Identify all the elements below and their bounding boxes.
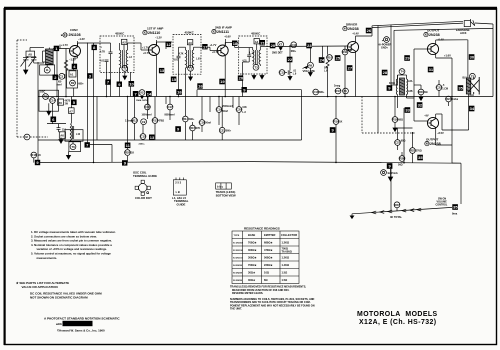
svg-text:A5: A5 <box>58 101 62 105</box>
bottom bus right <box>250 162 461 164</box>
callout square 8 top <box>92 45 97 50</box>
label 455KC T2 <box>185 31 195 35</box>
callout square 5b <box>71 100 77 106</box>
conv emitter block box <box>67 70 78 88</box>
osc wires <box>47 97 71 124</box>
svg-text:8Ω: 8Ω <box>264 278 268 282</box>
svg-text:X4 2N238: X4 2N238 <box>233 264 243 267</box>
svg-text:25: 25 <box>336 56 341 61</box>
circled R11 <box>342 46 353 70</box>
svg-text:COLOR DOT: COLOR DOT <box>135 196 152 200</box>
Q3 collector wire <box>225 43 249 48</box>
circled C17 <box>165 97 175 121</box>
svg-text:455KC: 455KC <box>115 32 125 36</box>
callout square 35a <box>458 85 464 91</box>
circled T4 ref <box>398 69 407 75</box>
label +9V Q3 <box>212 50 219 54</box>
coil resistance note <box>30 292 102 300</box>
svg-text:33: 33 <box>405 108 410 113</box>
svg-text:50mf: 50mf <box>205 122 211 125</box>
ground osc box <box>47 103 51 115</box>
svg-text:X6 2N238: X6 2N238 <box>233 280 243 282</box>
T3 secondary coil <box>259 47 267 67</box>
B plus terminal circle <box>378 37 392 50</box>
svg-text:–8.5V: –8.5V <box>437 131 444 135</box>
volume control line <box>352 207 452 213</box>
circled C22 <box>436 80 448 97</box>
IF transformer T1 dashed box <box>100 36 134 73</box>
circled C21 560 <box>219 97 231 141</box>
circled T3 ref <box>253 64 259 70</box>
svg-text:300Ω★: 300Ω★ <box>248 256 257 260</box>
svg-text:300Ω★: 300Ω★ <box>248 248 257 252</box>
svg-text:13: 13 <box>150 135 155 140</box>
svg-text:EMITTER: EMITTER <box>264 233 276 237</box>
svg-text:2 5 3: 2 5 3 <box>175 180 181 184</box>
capacitor C15 <box>57 124 67 132</box>
svg-text:30Ω★: 30Ω★ <box>248 278 256 282</box>
osc coil terminal guide <box>133 171 157 200</box>
svg-text:455KC: 455KC <box>185 31 195 35</box>
circled C19 <box>216 97 233 126</box>
svg-text:–9V: –9V <box>424 114 429 118</box>
label DRIVER 2N238 <box>343 23 359 43</box>
svg-text:X1 2N1108: X1 2N1108 <box>233 243 244 245</box>
ground osc <box>59 138 63 144</box>
callout square 9 agc <box>242 87 247 92</box>
circled C12 cap <box>279 68 297 76</box>
svg-text:BASE: BASE <box>248 233 255 237</box>
svg-text:1.5Ω: 1.5Ω <box>282 271 288 275</box>
label SW ON VOLUME CONTROL <box>436 198 448 207</box>
svg-text:L10: L10 <box>76 133 81 136</box>
main bus y96 <box>38 96 493 98</box>
AGC line <box>197 90 302 97</box>
circled R15 <box>190 122 201 140</box>
svg-text:470Ω★: 470Ω★ <box>264 248 273 252</box>
svg-text:700Ω★: 700Ω★ <box>248 241 257 245</box>
callout square 12 <box>166 42 172 48</box>
circled C3 <box>56 73 66 86</box>
svg-text:+1.7V: +1.7V <box>344 48 351 52</box>
svg-text:50mf: 50mf <box>222 110 228 113</box>
callout square 28 <box>382 70 388 76</box>
box A4 top <box>254 39 259 51</box>
callout square 9e <box>330 127 336 133</box>
svg-text:31: 31 <box>429 67 434 72</box>
diode X2 1N64 <box>136 90 148 103</box>
wire conv base bias <box>65 49 67 97</box>
svg-text:1.4KΩ: 1.4KΩ <box>282 263 290 267</box>
svg-text:4.7K: 4.7K <box>100 51 105 54</box>
IF transformer T2 dashed box <box>173 35 201 75</box>
circled R28 1K <box>125 150 135 156</box>
svg-text:L8A: L8A <box>408 80 413 83</box>
circled R25 <box>410 132 422 163</box>
circled C22b 2200 <box>139 125 147 145</box>
volume line left arrow <box>350 214 354 219</box>
osc coil box <box>65 130 83 142</box>
svg-text:19: 19 <box>220 79 225 84</box>
earphone jack <box>464 19 475 27</box>
Q4 emitter wire <box>344 48 356 97</box>
svg-text:2000mmf: 2000mmf <box>222 105 233 108</box>
svg-text:C22: C22 <box>437 86 443 90</box>
svg-text:560+: 560+ <box>226 129 232 132</box>
svg-text:20: 20 <box>271 43 276 48</box>
svg-text:A1: A1 <box>70 73 74 77</box>
svg-text:35: 35 <box>458 86 463 91</box>
svg-text:2ND DET: 2ND DET <box>272 52 283 55</box>
vertical wire x391 <box>390 25 392 85</box>
dashed AGC line <box>362 97 415 134</box>
vertical x391 to volume <box>390 163 392 211</box>
box A1 <box>69 71 76 77</box>
svg-text:220Ω★: 220Ω★ <box>264 263 273 267</box>
svg-text:X3 2N1111: X3 2N1111 <box>233 258 244 260</box>
svg-text:5mf★: 5mf★ <box>452 98 458 101</box>
T2 core <box>189 50 191 68</box>
svg-text:1.5Ω: 1.5Ω <box>282 278 288 282</box>
svg-text:measurements.: measurements. <box>37 256 58 260</box>
svg-text:C19: C19 <box>217 108 223 112</box>
svg-text:30: 30 <box>470 55 475 60</box>
callout square 27 <box>347 65 353 71</box>
trans bottom view guide <box>216 183 236 197</box>
osc box A5 <box>58 99 71 105</box>
callout square 9d <box>387 163 393 169</box>
svg-text:4.91: 4.91 <box>173 59 178 62</box>
svg-text:C10: C10 <box>291 43 297 47</box>
diode X7 detector <box>272 41 284 54</box>
label 2ND IF AMP 2N1111 <box>212 26 232 45</box>
wire verticals left band <box>48 43 97 145</box>
circled C9b 022 <box>141 119 147 125</box>
callout square 10 <box>129 81 135 87</box>
box A6 <box>59 132 66 139</box>
svg-text:A8: A8 <box>28 53 32 57</box>
svg-text:27: 27 <box>348 66 353 71</box>
circled R18 <box>392 97 403 129</box>
callout square 31 <box>428 67 434 73</box>
svg-text:X2 2N1110: X2 2N1110 <box>233 250 244 252</box>
circled C18 <box>199 97 211 133</box>
svg-text:R18: R18 <box>393 118 399 122</box>
svg-text:680+: 680+ <box>291 50 297 53</box>
conv collector wire <box>78 43 111 162</box>
callout square 18b <box>176 89 182 95</box>
Q4 collector to top wire <box>356 26 373 36</box>
svg-text:2N1108: 2N1108 <box>69 33 81 37</box>
svg-text:+1.6V: +1.6V <box>444 54 451 58</box>
svg-text:560Ω★: 560Ω★ <box>264 256 273 260</box>
callout square 33 <box>405 107 411 113</box>
svg-text:17: 17 <box>203 44 208 49</box>
svg-text:T4: T4 <box>401 70 405 74</box>
left block rect wires <box>38 62 302 163</box>
vertical x461 volume feed <box>452 163 461 204</box>
svg-text:680+: 680+ <box>78 82 84 85</box>
trimmer box A8 <box>26 48 44 57</box>
photofact line <box>44 317 120 333</box>
svg-text:68Ω: 68Ω <box>398 119 403 122</box>
variable capacitor C1 <box>21 56 45 70</box>
callout square 22 <box>287 57 293 63</box>
callout square 35c <box>452 204 458 210</box>
svg-text:+1.7V: +1.7V <box>142 46 149 50</box>
svg-text:1.CM: 1.CM <box>442 88 448 91</box>
antenna dashed loop <box>17 40 48 137</box>
callout square 25 <box>335 55 341 61</box>
svg-text:R28: R28 <box>125 151 131 155</box>
circled T5 ref <box>463 73 476 96</box>
antenna coil L1 <box>43 48 54 65</box>
callout square 15 <box>171 77 177 83</box>
wire T2 to Q3 <box>201 43 218 51</box>
callout square 34 <box>469 106 475 112</box>
wire sq7 right <box>90 145 112 163</box>
table text <box>233 233 297 282</box>
svg-text:VALUE OR APPLICATION: VALUE OR APPLICATION <box>22 285 58 289</box>
svg-text:–1.2V: –1.2V <box>155 36 162 40</box>
callout square 21 <box>260 40 266 45</box>
wire y30 long <box>394 28 493 85</box>
svg-text:L B: L B <box>176 190 180 194</box>
svg-text:L8B: L8B <box>408 90 413 93</box>
svg-text:GND+: GND+ <box>381 47 389 50</box>
svg-text:1.2KΩ: 1.2KΩ <box>282 241 290 245</box>
wire coil to conv base <box>53 45 69 49</box>
svg-text:35: 35 <box>418 155 423 160</box>
svg-text:C17: C17 <box>168 105 174 109</box>
svg-text:C13: C13 <box>313 90 319 94</box>
svg-text:34: 34 <box>470 106 475 111</box>
Q2 collector wire <box>157 42 173 49</box>
svg-text:X7: X7 <box>279 43 283 47</box>
svg-text:680+: 680+ <box>319 91 325 94</box>
Q3 emitter wire <box>224 55 226 97</box>
callout square 9c <box>387 85 393 91</box>
callout square 13b <box>159 68 165 73</box>
svg-text:16: 16 <box>198 84 203 89</box>
callout square 13 <box>149 135 155 141</box>
transistor Q4 DRIVER 2N238 <box>347 41 358 52</box>
wire x127 long <box>127 97 129 163</box>
label CONV 2N1108 <box>61 28 81 37</box>
svg-text:TYPE: TYPE <box>234 235 240 237</box>
svg-text:MOTOROLA MODELS: MOTOROLA MODELS <box>357 311 438 318</box>
svg-text:11: 11 <box>46 68 49 72</box>
circled M1 left <box>24 134 30 140</box>
circled R26 <box>398 152 405 167</box>
svg-text:9ma: 9ma <box>452 212 458 216</box>
circled T2 ref <box>188 65 194 80</box>
wire bias row <box>391 75 413 134</box>
svg-text:1K: 1K <box>131 152 134 155</box>
T1 primary coil <box>120 43 121 97</box>
circled B terminal <box>381 170 398 176</box>
vertical wire x493 right <box>475 23 493 97</box>
label 455KC T1 <box>115 32 125 36</box>
svg-text:14: 14 <box>147 91 152 96</box>
svg-text:GUIDE: GUIDE <box>177 203 186 207</box>
speaker <box>468 77 480 95</box>
T3 core <box>256 50 258 64</box>
T3 primary coil <box>253 48 254 65</box>
osc circled C14 <box>50 98 56 104</box>
vertical x452 low <box>451 97 453 146</box>
svg-text:2N1110: 2N1110 <box>148 31 160 35</box>
svg-text:2.2meg: 2.2meg <box>125 120 134 123</box>
svg-text:300Ω: 300Ω <box>389 82 395 85</box>
volume line arrows <box>372 208 421 214</box>
callout square 20b <box>270 43 276 49</box>
svg-text:35: 35 <box>453 205 458 210</box>
svg-text:2meg: 2meg <box>334 85 341 88</box>
label 4K TOTAL <box>390 216 402 219</box>
svg-text:1K: 1K <box>339 121 342 124</box>
svg-text:680Ω★: 680Ω★ <box>264 241 273 245</box>
label 455KC T3 <box>251 32 261 36</box>
svg-text:1000mmf: 1000mmf <box>142 115 152 117</box>
svg-text:12: 12 <box>166 42 171 47</box>
svg-text:C12: C12 <box>280 71 286 75</box>
svg-text:C23: C23 <box>395 141 401 145</box>
callout square 9b <box>175 126 181 132</box>
callout square 7b <box>133 91 139 97</box>
label +9V Q2 <box>143 51 150 55</box>
callout square 9 bus <box>122 160 127 165</box>
wire x148 <box>147 97 149 111</box>
wire det vertical <box>289 46 291 68</box>
conv emitter wire <box>74 55 78 96</box>
Q6 emitter wire <box>436 128 452 164</box>
L4 L5 terminal guide <box>172 178 189 207</box>
callout square 7 boxA <box>105 79 110 84</box>
svg-text:T3: T3 <box>255 66 259 70</box>
circled C10 <box>291 42 297 53</box>
svg-text:CONTROL: CONTROL <box>436 204 448 207</box>
svg-text:R16: R16 <box>31 153 37 157</box>
callout square 14 <box>146 91 152 97</box>
svg-text:+0.7V: +0.7V <box>212 50 219 54</box>
wire to earphone jack <box>372 21 463 27</box>
label VOLUME <box>303 69 315 73</box>
circled T6 <box>66 141 80 159</box>
wire C11 branch <box>322 46 324 57</box>
svg-text:COLLECTOR: COLLECTOR <box>281 233 297 237</box>
IF transformer T3 dashed box <box>239 36 267 74</box>
callout square 32 <box>417 102 423 108</box>
resistance readings table <box>232 227 299 284</box>
svg-text:455KC: 455KC <box>251 32 261 36</box>
ground ant <box>44 64 50 73</box>
svg-text:21: 21 <box>260 40 265 45</box>
callout square 1 <box>54 46 59 51</box>
svg-text:4.7K: 4.7K <box>179 53 184 56</box>
transistor Q5 OUTPUT 2N238 <box>427 43 438 54</box>
osc circled R5 <box>40 91 48 100</box>
motorola models title <box>357 311 438 326</box>
callout square 3 <box>87 73 92 78</box>
circled C23 thermistor <box>395 128 406 150</box>
svg-text:15: 15 <box>172 77 177 82</box>
box A2 top <box>122 39 127 50</box>
svg-text:+0.7V: +0.7V <box>143 51 150 55</box>
Q5 collector wire <box>436 40 468 45</box>
ground det <box>288 75 292 80</box>
label 1ST IF AMP 2N1110 <box>143 27 164 46</box>
Q6 collector wire <box>436 114 469 135</box>
svg-text:R14: R14 <box>183 117 189 121</box>
svg-text:390+: 390+ <box>189 118 195 121</box>
bus y140 <box>38 139 302 141</box>
svg-text:30Ω★: 30Ω★ <box>248 271 256 275</box>
circled R21 <box>418 85 428 97</box>
vertical x404 low <box>403 108 405 163</box>
T2 leg wires <box>179 59 202 97</box>
notes list <box>31 230 116 260</box>
box A3 top <box>187 40 192 50</box>
svg-text:18: 18 <box>233 41 238 46</box>
circle 11 box <box>40 65 55 75</box>
callout square 20 <box>238 75 244 80</box>
svg-text:PONENT REPLACEMENT AND MAY NOT: PONENT REPLACEMENT AND MAY NOT NECESSARI… <box>230 304 315 307</box>
svg-text:OSC: OSC <box>40 91 45 94</box>
T1 secondary coil <box>126 43 134 72</box>
wire x233 <box>232 97 234 109</box>
callout square 2 <box>53 75 59 81</box>
svg-text:+1.7V: +1.7V <box>210 43 217 47</box>
svg-text:THE UNIT.: THE UNIT. <box>230 308 242 311</box>
svg-text:32: 32 <box>418 103 423 108</box>
svg-text:+1.7V: +1.7V <box>61 43 68 47</box>
callout square 29 <box>404 55 410 61</box>
svg-text:10K: 10K <box>242 106 247 109</box>
svg-text:22: 22 <box>288 57 293 62</box>
svg-text:R25: R25 <box>410 149 416 153</box>
svg-text:X5 2N238: X5 2N238 <box>233 273 243 275</box>
callout square 26 <box>366 28 372 34</box>
svg-text:R21: R21 <box>419 90 425 94</box>
interstage transformer T4 <box>389 75 413 98</box>
svg-text:2N238: 2N238 <box>348 27 359 31</box>
svg-text:5mf: 5mf <box>324 68 328 70</box>
svg-text:C18: C18 <box>200 121 206 125</box>
ground R21 <box>414 85 423 100</box>
svg-text:2200+: 2200+ <box>139 143 146 145</box>
svg-text:TERMINAL GUIDE: TERMINAL GUIDE <box>133 174 157 178</box>
svg-text:27K: 27K <box>196 127 201 130</box>
svg-text:T6: T6 <box>72 145 76 149</box>
svg-text:TA 600Ω: TA 600Ω <box>282 250 292 254</box>
callout square 6 <box>51 117 57 123</box>
label conv voltages <box>61 37 85 62</box>
osc section box <box>39 90 59 111</box>
transistor Q2 1ST IF AMP 2N1110 <box>149 45 160 56</box>
svg-text:1.2KΩ: 1.2KΩ <box>282 256 290 260</box>
label OUTPUT 2N238 Q5 <box>424 29 444 42</box>
svg-text:X12A, E (Ch. HS-732): X12A, E (Ch. HS-732) <box>359 319 437 326</box>
svg-text:R17: R17 <box>336 89 342 93</box>
capacitor C4 T1 <box>100 43 113 70</box>
capacitor C8 T3 <box>242 48 255 63</box>
callout square 16 <box>197 83 203 88</box>
svg-text:R27: R27 <box>395 203 401 207</box>
circled R27 volume <box>394 202 400 211</box>
T1 core <box>123 50 125 68</box>
numbers adjoining note <box>230 298 315 311</box>
